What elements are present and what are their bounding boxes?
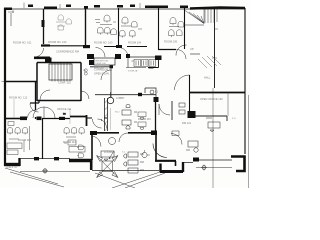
furniture office C chairs	[169, 18, 184, 38]
wall y118 left	[5, 118, 21, 120]
corridor wall pier at 85	[83, 45, 90, 48]
bottom-left exterior wall bar	[4, 163, 20, 166]
exterior left wall	[4, 8, 6, 166]
bottom wall step center-right vertical	[159, 164, 161, 173]
svg-text:ROOM 115: ROOM 115	[138, 117, 151, 121]
wall stub y103 x30-39	[30, 101, 39, 103]
big door arc right room	[175, 75, 190, 90]
pier y118	[20, 117, 27, 121]
phone circle symbol	[142, 152, 147, 157]
svg-text:ROOM 105: ROOM 105	[164, 40, 178, 44]
wc fixtures	[179, 103, 185, 107]
office5 bottom wall y49	[158, 49, 176, 51]
pier y132 left	[90, 131, 97, 135]
svg-text:T-1: T-1	[122, 152, 126, 154]
pier y132 right	[151, 131, 157, 136]
bottom-right corner wall	[231, 157, 245, 172]
pier x91 y60	[89, 60, 94, 65]
desk pair room115 right	[138, 112, 146, 130]
dim line left room	[13, 99, 15, 118]
dim line x70 room2	[69, 109, 71, 124]
tick on corridor wall	[214, 28, 218, 30]
dimension line bottom	[20, 168, 232, 172]
conference chairs hatching	[52, 63, 70, 82]
svg-text:LOBBY: LOBBY	[116, 96, 125, 100]
door arc x30	[30, 104, 39, 113]
bottom-left room2 chairs	[64, 127, 85, 157]
bottom window wall left span	[20, 158, 70, 160]
dim circle right	[202, 166, 206, 170]
bottom wall pier A	[34, 157, 39, 160]
top wall pier 3	[44, 7, 57, 10]
bottom wall pier B	[54, 157, 59, 160]
interior wall x43 upper (room1 right)	[43, 9, 45, 44]
door arc left room	[28, 110, 36, 118]
svg-text:1A: 1A	[83, 69, 86, 72]
bottom wall thick bar center-right	[160, 170, 183, 173]
office5 door arc	[177, 50, 187, 60]
top wall thick right span	[190, 8, 245, 9]
svg-text:ROOM 104: ROOM 104	[128, 41, 142, 45]
leader diagonals bottom-left	[5, 168, 64, 187]
X flower table group	[97, 152, 119, 178]
svg-text:ROOM NO. 101: ROOM NO. 101	[13, 41, 32, 45]
stair landing line	[190, 53, 200, 55]
corridor wall pier at 118	[116, 45, 122, 48]
top wall pier 8	[130, 5, 135, 8]
closet line room1	[10, 13, 12, 26]
room1 door header stub	[41, 44, 50, 46]
interior wall x214 (corridor)	[214, 8, 216, 88]
stair room door arc	[176, 45, 187, 56]
door arc x170-182 lower	[171, 134, 182, 145]
right room left wall lower	[189, 92, 191, 112]
column circle	[107, 97, 113, 103]
bottom wall step down	[90, 159, 93, 170]
right room interior wall y116	[189, 116, 227, 121]
double door arcs above y118	[33, 107, 55, 118]
door arc x158-170	[159, 104, 170, 115]
wall x156 y97-131	[155, 97, 157, 133]
small desk x172	[172, 131, 179, 136]
svg-text:UP: UP	[190, 47, 194, 51]
partition x228	[227, 93, 229, 116]
door arc curved bottom center	[153, 144, 167, 158]
stair fan diagonals	[185, 8, 204, 24]
dimension vertical x249	[248, 95, 250, 188]
interior wall x118	[118, 8, 120, 46]
reception pier left	[87, 54, 94, 59]
svg-text:DESK 100: DESK 100	[96, 63, 107, 65]
dimension tick top x24	[24, 3, 140, 9]
corridor top wall y46 left span	[44, 45, 147, 48]
wall y81 left	[5, 81, 37, 83]
desk right room	[206, 118, 220, 131]
interior wall x184	[184, 8, 186, 49]
bottom-left wall step up	[18, 158, 20, 166]
svg-text:ROOM NO. 102: ROOM NO. 102	[48, 40, 67, 44]
furniture office B chairs	[120, 17, 143, 38]
bottom wall step up right	[182, 162, 184, 172]
exterior right wall	[244, 8, 246, 154]
wall x42 lower (between bottom-left rooms)	[42, 119, 44, 159]
double wall x104-107	[105, 98, 108, 131]
reception pier right	[115, 54, 121, 59]
top wall pier 9	[145, 6, 168, 9]
interior wall x85 (top column)	[85, 8, 87, 45]
svg-text:ROOM 113: ROOM 113	[18, 138, 31, 142]
top wall pier 1	[4, 8, 12, 11]
pier x60 y118	[59, 117, 65, 120]
svg-text:OFFICE 111: OFFICE 111	[57, 107, 72, 111]
door arc x119-128	[119, 133, 128, 142]
svg-text:CORRIDOR 1A: CORRIDOR 1A	[94, 68, 112, 72]
wall x92 bottom	[91, 133, 93, 160]
conference room walls	[37, 63, 81, 102]
big right room top wall y92	[189, 92, 245, 94]
top wall pier 2	[28, 5, 33, 8]
tiny fixtures left of corridor	[84, 69, 87, 72]
small wall x154	[148, 60, 159, 68]
desk bottom right room	[186, 141, 198, 152]
leader diagonals bottom-center	[95, 172, 165, 188]
right room pier	[188, 111, 196, 118]
svg-text:RM 121: RM 121	[182, 121, 192, 125]
svg-text:D2: D2	[63, 114, 67, 116]
svg-text:ROOM NO. 112: ROOM NO. 112	[9, 96, 28, 100]
nub down at x176	[175, 161, 177, 166]
interior bar y161	[155, 160, 176, 162]
theta chair	[150, 90, 154, 94]
exterior top wall	[5, 8, 245, 10]
conference door arc	[40, 90, 50, 100]
small room walls x172	[171, 101, 173, 120]
conference table	[49, 64, 72, 80]
bottom-left room1 chairs	[7, 122, 30, 155]
door arc room1	[35, 48, 44, 57]
corridor wall y94	[95, 94, 156, 96]
wall notch on x43	[42, 20, 45, 27]
bottom window wall right span	[184, 160, 232, 163]
pier near x128	[126, 54, 130, 58]
pier at 150-157	[155, 56, 162, 61]
conference right door arc	[81, 91, 89, 99]
svg-text:2'-6: 2'-6	[232, 118, 236, 120]
svg-text:OPEN OFFICE 120: OPEN OFFICE 120	[200, 97, 223, 101]
bottom wall thick bar center-left	[69, 159, 91, 162]
top wall pier 10	[180, 6, 188, 9]
interior wall x156 lower	[155, 135, 157, 160]
pier x38 y118	[37, 117, 42, 121]
svg-text:CONFERENCE RM: CONFERENCE RM	[56, 50, 79, 54]
svg-text:OPEN PLAN: OPEN PLAN	[94, 72, 109, 76]
top wall pier 4	[66, 5, 71, 8]
wall x35 mid-left vertical	[35, 81, 37, 119]
conference NW pier	[45, 58, 52, 63]
office4 door arc	[119, 48, 129, 58]
hall diagonal hatch	[198, 56, 221, 68]
svg-text:B1: B1	[155, 90, 159, 94]
svg-text:STOR 2B: STOR 2B	[128, 71, 138, 73]
svg-text:RECEPTION: RECEPTION	[96, 61, 109, 63]
column circle stem	[110, 92, 112, 97]
svg-text:ROOM 114: ROOM 114	[63, 140, 76, 144]
pier corner x86 y116	[70, 115, 87, 126]
vestibule double door arcs	[93, 119, 107, 128]
bottom window wall center span	[92, 170, 159, 172]
wall y57 right of reception	[128, 56, 158, 58]
tick on y94	[138, 93, 142, 96]
svg-text:HALL: HALL	[204, 76, 211, 80]
wall stub y118 x86-104	[87, 117, 107, 119]
pier x111 y66	[110, 65, 114, 68]
office3 door arc	[96, 48, 106, 58]
svg-text:ST-2: ST-2	[115, 112, 120, 114]
big right room left wall	[189, 75, 191, 92]
top wall pier 5	[84, 6, 88, 9]
door arc under corridor left	[92, 136, 101, 147]
desks right of reception	[132, 60, 156, 69]
desk row room x107-156	[122, 104, 137, 129]
corridor vertical x111	[110, 66, 112, 97]
svg-text:ROOM NO. 103: ROOM NO. 103	[94, 41, 113, 45]
furniture office A chairs	[95, 15, 116, 35]
tick x214 y58	[212, 57, 217, 59]
credenza bar below room1	[34, 56, 50, 59]
faint furniture room2	[56, 15, 71, 30]
top wall pier 7	[117, 5, 123, 8]
svg-text:SCALE 1/8: SCALE 1/8	[6, 166, 18, 169]
corridor mid wall y67	[90, 66, 112, 68]
pier x156 top	[154, 97, 159, 102]
interior wall x158	[158, 8, 160, 50]
svg-text:CONF. 110: CONF. 110	[58, 81, 71, 85]
top wall pier 6	[94, 5, 100, 8]
dimension vertical x213	[212, 88, 214, 188]
L desk at 145-162	[145, 88, 156, 97]
bottom wall pier C	[193, 158, 199, 162]
svg-text:LOUNGE: LOUNGE	[104, 150, 115, 154]
wall y118 right span to x=63	[42, 118, 70, 120]
counter y67 right	[126, 67, 146, 69]
reception counter box	[94, 58, 115, 65]
desk bottom center	[101, 151, 114, 160]
stair landing edge	[184, 24, 204, 26]
corridor door arc	[101, 70, 111, 80]
desk cluster bottom x126-148	[124, 152, 144, 173]
round table bottom center	[109, 138, 116, 145]
short vertical x128	[127, 58, 129, 68]
small marks top-left	[8, 10, 14, 13]
dim circle left	[43, 169, 47, 173]
dim marks x110 vertical	[109, 108, 111, 130]
stair treads	[205, 8, 217, 24]
tick left wall y81	[2, 81, 6, 83]
corridor wall y132	[90, 132, 157, 134]
